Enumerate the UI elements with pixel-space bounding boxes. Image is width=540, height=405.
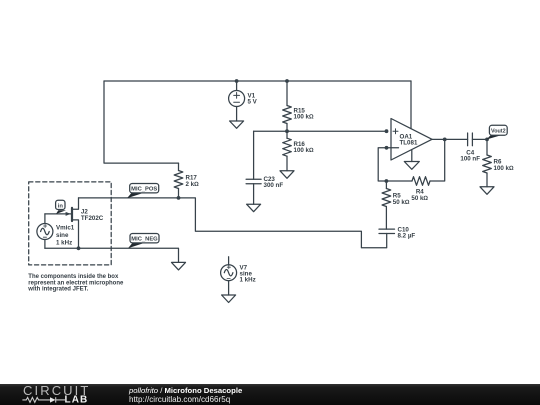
svg-text:1 kHz: 1 kHz — [56, 240, 72, 247]
svg-text:100 nF: 100 nF — [460, 155, 480, 162]
resistor R4 — [386, 177, 430, 186]
flag MIC_POS — [127, 184, 159, 199]
svg-text:Vout2: Vout2 — [491, 128, 506, 134]
label R6 100 k — [494, 159, 514, 172]
node junction R15/R16 — [285, 129, 289, 133]
node output junction — [443, 138, 447, 142]
ground below op-amp — [404, 162, 419, 170]
node op-amp - input — [385, 146, 389, 150]
ground below V7 — [222, 295, 236, 303]
svg-text:represent an electret micropho: represent an electret microphone — [28, 280, 124, 286]
ground below R6 — [480, 187, 494, 195]
node J2 source junction — [77, 246, 81, 250]
wire MIC_NEG net — [45, 248, 179, 262]
dashed box electret mic — [29, 182, 112, 265]
resistor R16 — [283, 131, 292, 171]
svg-text:50 kΩ: 50 kΩ — [393, 199, 410, 206]
flag Vout2 — [487, 125, 508, 139]
svg-text:The components inside the box: The components inside the box — [28, 274, 119, 280]
ground below V1 — [230, 121, 244, 128]
svg-text:Vmic1: Vmic1 — [56, 225, 75, 232]
wire top supply rail — [104, 80, 411, 82]
resistor R5 — [382, 181, 391, 229]
label V7 sine 1 kHz — [240, 265, 256, 284]
svg-text:1 kHz: 1 kHz — [240, 277, 256, 284]
resistor R6 — [483, 139, 492, 186]
voltage source V7 — [221, 257, 237, 295]
wire inverting input loop — [378, 148, 391, 181]
label R5 50 k — [393, 193, 410, 206]
node op-amp + input — [385, 129, 389, 133]
wire MIC_POS net to C10 — [79, 198, 387, 248]
svg-text:100 kΩ: 100 kΩ — [294, 147, 314, 154]
label C10 8.2 uF — [398, 226, 416, 239]
capacitor C10 — [379, 229, 395, 233]
footer bar — [0, 384, 540, 405]
voltage source Vmic1 — [37, 214, 53, 248]
node R5/R4 junction — [385, 179, 389, 183]
ground below R16 — [280, 171, 294, 179]
capacitor C4 — [468, 133, 487, 146]
node R17/MIC_POS junction — [177, 196, 181, 200]
node junction on rail at R15 — [285, 79, 289, 83]
svg-text:5 V: 5 V — [248, 99, 258, 106]
svg-text:300 nF: 300 nF — [264, 182, 284, 189]
label R4 50 k — [411, 189, 428, 202]
CircuitLab logo — [20, 384, 98, 405]
svg-text:100 kΩ: 100 kΩ — [494, 165, 514, 172]
svg-text:2 kΩ: 2 kΩ — [186, 181, 200, 188]
resistor R17 — [174, 163, 183, 198]
label Vmic1 sine 1 kHz — [56, 225, 75, 247]
svg-text:MIC_POS: MIC_POS — [131, 187, 157, 193]
op-amp OA1 — [391, 81, 432, 162]
svg-text:sine: sine — [56, 232, 69, 239]
svg-text:TF202C: TF202C — [81, 215, 104, 222]
ground below C23 — [247, 204, 261, 212]
capacitor C23 — [246, 131, 261, 204]
svg-text:TL081: TL081 — [400, 140, 418, 147]
label J2 TF202C — [81, 209, 104, 222]
node Vout2 junction — [485, 138, 489, 142]
label C23 300 nF — [264, 176, 284, 189]
svg-text:LAB: LAB — [65, 395, 89, 405]
wire left rail down to R17 — [104, 81, 179, 163]
label V1 5 V — [248, 93, 258, 106]
wire op-amp output — [432, 138, 468, 140]
resistor R15 — [283, 81, 292, 131]
node junction on rail at V1 — [235, 79, 239, 83]
label R15 100 k — [294, 108, 314, 121]
note text — [27, 274, 124, 292]
svg-text:in: in — [58, 203, 64, 209]
svg-text:with integrated JFET.: with integrated JFET. — [27, 286, 88, 292]
svg-text:8.2 µF: 8.2 µF — [398, 232, 416, 239]
flag MIC_NEG — [128, 234, 159, 249]
svg-text:MIC_NEG: MIC_NEG — [131, 237, 158, 243]
ground MIC_NEG — [172, 262, 186, 270]
label R16 100 k — [294, 141, 314, 154]
transistor J2 JFET — [45, 198, 79, 248]
flag in — [56, 200, 66, 214]
wire feedback from output down — [430, 139, 445, 181]
label R17 2 k — [186, 175, 200, 188]
svg-text:100 kΩ: 100 kΩ — [294, 114, 314, 121]
label C4 100 nF — [460, 150, 480, 163]
voltage source V1 — [229, 81, 245, 121]
svg-text:50 kΩ: 50 kΩ — [411, 195, 428, 202]
wire mid rail to op-amp + input — [254, 130, 387, 132]
label OA1 TL081 — [400, 133, 418, 146]
